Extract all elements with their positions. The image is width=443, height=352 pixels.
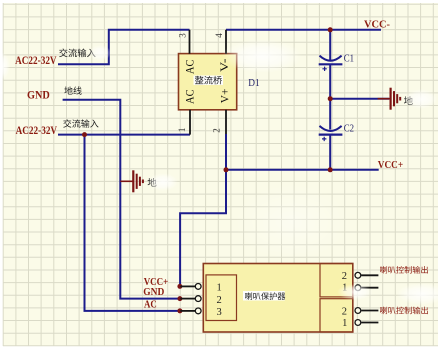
junction V+ corner — [224, 167, 229, 172]
svg-text:AC22-32V: AC22-32V — [15, 53, 57, 67]
comment field 整流桥 background — [194, 76, 224, 85]
inner pin box left — [206, 275, 237, 321]
protector left pin 1 line — [180, 285, 195, 287]
wire AC branch down to protector pin 3 — [85, 135, 180, 311]
junction at protector pin 2 — [177, 296, 182, 301]
protector left pin 2 circle — [195, 296, 201, 302]
junction C1/C2/ground — [328, 96, 333, 101]
pin 2 of D1 — [225, 110, 227, 134]
wire pin2 V+ down to VCC+ rail — [225, 134, 227, 170]
svg-text:1: 1 — [342, 318, 347, 329]
svg-text:D1: D1 — [248, 77, 259, 89]
pin 4 of D1 — [225, 30, 227, 54]
svg-text:VCC+: VCC+ — [378, 160, 403, 171]
capacitor C1 straight plate — [319, 63, 343, 65]
svg-text:V+: V+ — [218, 88, 232, 103]
wire net GND from label to protector pin 2 — [63, 100, 180, 299]
wire net VCC- from pin 4 to VCC- label end — [226, 29, 381, 31]
junction AC branch — [82, 132, 87, 137]
label 喇叭保护器 — [245, 292, 285, 300]
wire net AC1 from first AC22-32V input up to pin 3 — [58, 30, 190, 65]
label 地 middle — [148, 178, 157, 187]
protector right pin 2 line — [361, 310, 378, 312]
protector right pin 2 circle — [355, 308, 361, 314]
label 喇叭控制输出 bottom — [380, 307, 428, 315]
capacitor C2 curved plate — [320, 126, 342, 131]
svg-text:C2: C2 — [344, 122, 354, 134]
svg-text:VCC-: VCC- — [364, 20, 390, 31]
label 地线 — [64, 86, 81, 94]
C1 plus sign — [322, 67, 326, 71]
svg-text:AC: AC — [183, 89, 197, 104]
svg-text:2: 2 — [342, 306, 347, 317]
pin 1 of D1 — [189, 110, 191, 135]
wire mid junction to right ground — [330, 98, 389, 100]
protector left pin 3 line — [180, 310, 195, 312]
label 交流输入 first — [59, 49, 95, 58]
protector right pin 1 circle — [355, 285, 361, 291]
svg-text:1: 1 — [177, 128, 187, 133]
C2 plus sign — [322, 137, 326, 141]
wire net AC2 from second AC22-32V input to pin 1 — [58, 134, 190, 136]
ground symbol right (net 地) — [378, 88, 401, 110]
svg-text:2: 2 — [342, 271, 347, 282]
svg-text:GND: GND — [27, 87, 50, 101]
rectifier bridge U/D1 body — [179, 54, 237, 110]
svg-text:2: 2 — [211, 128, 221, 133]
junction VCC- / C1 — [328, 27, 333, 32]
svg-text:4: 4 — [214, 33, 224, 38]
wire net VCC+ horizontal rail — [226, 169, 379, 171]
junction at protector pin 1 — [177, 284, 182, 289]
protector right pin 1 circle — [355, 320, 361, 326]
protector right pin 1 line — [361, 322, 378, 324]
protector left pin 1 circle — [195, 284, 201, 290]
protector right pin 1 line — [361, 287, 378, 289]
pin 3 of D1 — [189, 30, 191, 54]
svg-text:C1: C1 — [344, 52, 354, 64]
ground symbol middle (net 地) — [120, 170, 143, 192]
comment 整流桥 — [195, 76, 222, 85]
wire C1 top segment — [329, 30, 331, 60]
protector left pin 2 line — [180, 298, 195, 300]
wire C2 bottom to VCC+ rail — [329, 135, 331, 170]
inner pin box right top — [320, 264, 353, 297]
inner pin box right bottom — [320, 299, 353, 332]
label 地 right — [404, 96, 413, 105]
svg-text:1: 1 — [217, 283, 222, 294]
label 喇叭保护器 background — [243, 291, 285, 301]
svg-text:AC: AC — [144, 299, 157, 310]
wire C1 bottom to mid junction — [329, 64, 331, 98]
capacitor C1 curved plate — [320, 56, 342, 61]
junction at protector pin 3 — [177, 308, 182, 313]
protector right pin 2 circle — [355, 272, 361, 278]
junction VCC+ / C2 — [328, 167, 333, 172]
label 喇叭控制输出 top — [380, 266, 428, 274]
wire mid junction to C2 top — [329, 99, 331, 130]
protector left pin 3 circle — [195, 308, 201, 314]
svg-text:GND: GND — [143, 287, 164, 298]
svg-text:3: 3 — [217, 307, 222, 318]
svg-text:AC: AC — [183, 60, 197, 75]
svg-text:3: 3 — [177, 33, 187, 38]
svg-text:AC22-32V: AC22-32V — [16, 123, 58, 137]
wire VCC+ rail down-left to protector pin 1 — [180, 170, 226, 287]
capacitor C2 straight plate — [319, 134, 343, 136]
svg-text:2: 2 — [217, 295, 222, 306]
speaker protector body — [203, 264, 352, 333]
protector right pin 2 line — [361, 274, 378, 276]
white watermark smudges — [0, 39, 443, 305]
label 交流输入 second — [63, 119, 98, 127]
